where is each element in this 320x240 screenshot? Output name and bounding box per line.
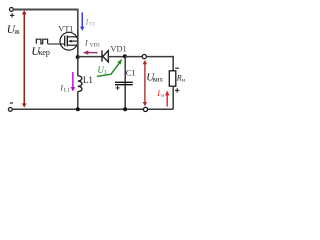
svg-text:C1: C1 — [126, 69, 136, 78]
wire resistor to bottom rail — [172, 86, 174, 109]
junction dot C1 / bottom rail — [123, 107, 127, 111]
wire corner down to VT1 drain — [77, 9, 79, 33]
svg-text:кер: кер — [39, 48, 50, 57]
svg-text:I: I — [156, 89, 160, 98]
svg-text:вих: вих — [153, 75, 164, 83]
minus sign input — [10, 102, 13, 104]
current arrow I_VD1 (dark magenta, pointing left) — [83, 50, 98, 54]
svg-text:н: н — [161, 93, 164, 99]
square wave control symbol — [36, 39, 47, 44]
right branch down to load — [172, 56, 174, 71]
top rail wire — [13, 9, 77, 11]
svg-text:1: 1 — [104, 70, 107, 76]
svg-text:н: н — [182, 77, 185, 83]
svg-text:L1: L1 — [64, 87, 70, 93]
wire inductor to bottom rail — [77, 91, 79, 109]
top input terminal — [10, 7, 14, 11]
diode VD1 — [102, 50, 108, 62]
svg-text:VD1: VD1 — [90, 43, 101, 49]
bulk arrow of VT1 — [68, 40, 71, 43]
current arrow I_L1 (magenta, down) — [71, 72, 75, 92]
transistor VT1 (MOSFET) — [60, 32, 78, 50]
junction dot L1 / bottom rail — [76, 107, 80, 111]
VT1 drain-source vertical bus — [77, 32, 79, 57]
capacitor C1 wire down — [124, 56, 126, 109]
svg-text:Т1: Т1 — [89, 22, 95, 28]
capacitor polarity plus — [116, 86, 120, 90]
bottom rail wire — [12, 108, 173, 110]
svg-text:VD1: VD1 — [110, 45, 126, 54]
svg-text:I: I — [85, 18, 89, 27]
wire node A down to inductor — [77, 57, 79, 76]
resistor Rn — [169, 71, 176, 86]
output voltage arrow U_vyh (double headed, dark red) — [143, 60, 147, 107]
svg-text:I: I — [59, 83, 63, 92]
inductor L1 — [78, 76, 82, 92]
current arrow I_T1 (blue) — [80, 12, 84, 31]
bottom input terminal — [8, 108, 12, 112]
svg-text:ж: ж — [13, 27, 20, 36]
minus sign at load top — [175, 67, 179, 69]
capacitor C1 plates — [115, 82, 133, 84]
voltage arrow U_zh (double headed, dark red) — [22, 10, 27, 107]
svg-text:R: R — [176, 73, 182, 82]
node A junction dot — [76, 55, 80, 59]
svg-text:I: I — [84, 38, 88, 47]
svg-text:L1: L1 — [83, 75, 93, 85]
load current arrow I_n (red, up) — [165, 91, 169, 107]
wire terminal to right corner — [147, 56, 174, 58]
output terminal top — [142, 55, 146, 59]
wire diode to node B — [108, 56, 125, 58]
wire node A to diode — [78, 56, 102, 58]
gate wire from control to VT1 — [48, 43, 65, 45]
plus sign at load bottom — [175, 88, 179, 92]
node B junction dot — [123, 54, 127, 58]
bottom output terminal — [143, 107, 147, 111]
voltage arrow U_1 (green diagonal) — [97, 62, 120, 77]
wire node B to output terminal — [125, 56, 142, 58]
plus sign input — [10, 13, 14, 17]
